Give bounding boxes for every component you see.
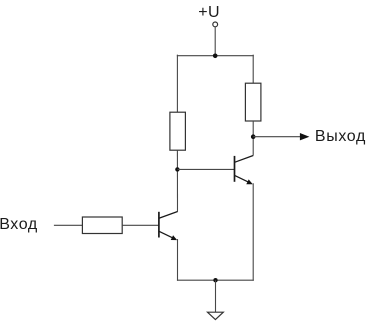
- transistor Q2 (NPN): [235, 156, 254, 185]
- svg-text:Выход: Выход: [315, 128, 366, 145]
- wire: R3 to Q1 base: [122, 224, 158, 226]
- wire: bottom rail: [178, 279, 254, 281]
- node: ground junction dot: [213, 278, 217, 282]
- wire: top rail: [177, 55, 253, 57]
- wire: Q2 emitter down: [252, 184, 254, 280]
- transistor Q1 (NPN): [159, 212, 178, 241]
- node A: junction dot R1/Q1/Q2 base: [175, 167, 179, 171]
- wire: right branch upper: [252, 55, 254, 83]
- wire: ground stem: [215, 280, 217, 312]
- resistor R1 (collector load): [170, 112, 186, 150]
- node: output junction dot: [251, 134, 256, 139]
- wire: +U stem: [214, 27, 216, 56]
- wire: Q1 emitter down: [177, 240, 179, 281]
- wire: R1 bottom to Q1 collector: [176, 150, 178, 211]
- wire: output arrow line: [253, 136, 302, 138]
- wire: Q2 collector up to output node: [252, 137, 254, 156]
- svg-text:+U: +U: [198, 4, 220, 21]
- ground: [208, 312, 224, 319]
- wire: input lead: [54, 224, 83, 226]
- wire: left branch upper: [176, 55, 178, 112]
- wire: R2 bottom to output node: [252, 121, 254, 137]
- arrowhead: output: [300, 133, 310, 140]
- node: top junction dot: [213, 54, 218, 59]
- resistor R3 (base input): [82, 217, 122, 234]
- resistor R2 (output load): [245, 83, 261, 121]
- svg-text:Вход: Вход: [0, 216, 38, 233]
- terminal circle +U: [213, 22, 218, 27]
- wire: node A to Q2 base: [177, 168, 234, 170]
